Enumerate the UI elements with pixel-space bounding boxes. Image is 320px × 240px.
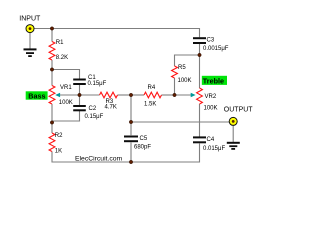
resistor R1: [49, 42, 55, 61]
credit ElecCircuit.com: [75, 155, 123, 162]
value 0.15uF (C1): [88, 81, 107, 87]
svg-text:Bass: Bass: [28, 91, 45, 100]
wire node D to node H: [130, 95, 132, 122]
label R5: [178, 65, 186, 71]
svg-text:VR2: VR2: [205, 94, 217, 100]
svg-text:1K: 1K: [55, 149, 62, 155]
svg-text:R4: R4: [148, 85, 156, 91]
svg-text:INPUT: INPUT: [19, 15, 41, 22]
value 100K (VR2): [204, 106, 218, 112]
label VR2: [205, 94, 217, 100]
svg-text:OUTPUT: OUTPUT: [224, 106, 254, 113]
node C junction (C1/C2/wiper/R3): [78, 93, 81, 96]
resistor R4: [144, 92, 162, 98]
wire node F to R5 top: [175, 55, 200, 66]
value 680pF: [134, 144, 151, 150]
label C1: [88, 75, 96, 81]
ground (output): [227, 143, 240, 149]
svg-text:8.2K: 8.2K: [56, 55, 68, 61]
value 4.7K: [105, 105, 117, 111]
node B junction (R1/C1/VR1): [50, 68, 53, 71]
ground (input): [24, 49, 37, 56]
value 0.015uF (C4): [203, 146, 225, 152]
label VR1: [60, 85, 72, 91]
node E junction (R4/R5/VR2 wiper): [173, 93, 176, 96]
wire VR1 bottom to node A: [51, 104, 53, 123]
label R1: [56, 40, 64, 46]
label C3: [207, 38, 215, 44]
wire R3 to node D: [118, 94, 132, 96]
label C2: [89, 106, 97, 112]
potentiometer VR1 body: [49, 86, 55, 105]
value 1K: [55, 149, 62, 155]
wire input jack to ground: [29, 33, 31, 49]
wire node E to VR2 wiper arrow: [175, 94, 192, 96]
wire C3 bottom to node F: [199, 44, 201, 55]
svg-text:C2: C2: [89, 106, 97, 112]
wire VR2 bottom to node G: [199, 104, 201, 122]
svg-text:R5: R5: [178, 65, 186, 71]
svg-text:C5: C5: [140, 136, 148, 142]
wire node B to C1 top: [52, 70, 80, 79]
potentiometer VR1 wiper arrow: [55, 93, 60, 97]
wire C2 top to node C: [79, 95, 81, 105]
label R3: [106, 99, 114, 105]
value 0.15uF (C2): [85, 114, 104, 120]
wire R1 top stub: [51, 29, 53, 42]
svg-text:C3: C3: [207, 38, 215, 44]
value 1.5K: [144, 102, 156, 108]
label OUTPUT: [224, 106, 254, 113]
svg-text:1.5K: 1.5K: [144, 102, 156, 108]
node Bass label: [26, 91, 48, 100]
label INPUT: [19, 15, 41, 22]
svg-text:4.7K: 4.7K: [105, 105, 117, 111]
capacitor C2: [73, 106, 86, 110]
resistor R2: [49, 133, 55, 152]
wire node A to R2 top: [51, 123, 53, 134]
wire output jack to ground: [232, 126, 234, 142]
node Treble label: [202, 76, 227, 86]
capacitor C3: [193, 38, 206, 43]
input jack J1: [26, 25, 34, 33]
potentiometer VR2 body: [197, 88, 203, 104]
wire R4 to node E: [162, 94, 175, 96]
value 100K (VR1): [59, 100, 73, 106]
svg-text:0.0015μF: 0.0015μF: [203, 46, 229, 52]
wire node D to R4: [131, 94, 144, 96]
svg-text:Treble: Treble: [203, 76, 224, 85]
node H junction (branch/output rail/C5): [129, 120, 132, 123]
wire bottom rail R2 to C4: [52, 144, 200, 163]
wire C2 bottom to node A: [52, 111, 80, 121]
svg-text:R2: R2: [55, 133, 63, 139]
wire R5 bottom to node E: [174, 78, 176, 95]
svg-text:680pF: 680pF: [134, 144, 151, 150]
wire VR1 wiper: [59, 94, 80, 96]
wire R1 bottom to node B: [51, 60, 53, 70]
capacitor C5: [124, 137, 138, 142]
wire node G to C4 top: [199, 122, 201, 137]
wire node B to VR1 top: [51, 70, 53, 86]
capacitor C4: [193, 137, 206, 142]
resistor R3: [100, 92, 118, 98]
value 8.2K: [56, 55, 68, 61]
node C5 bottom junction: [129, 160, 132, 163]
svg-text:0.15μF: 0.15μF: [85, 114, 104, 120]
potentiometer VR2 wiper arrow: [191, 93, 196, 97]
wire top rail input to C3: [34, 29, 200, 38]
svg-text:100K: 100K: [178, 78, 192, 84]
value 100K (R5): [178, 78, 192, 84]
label R2: [55, 133, 63, 139]
resistor R5: [172, 66, 178, 78]
wire C1 bottom to node C: [79, 85, 81, 95]
node D junction (R3/R4/C5 branch): [129, 93, 132, 96]
svg-text:VR1: VR1: [60, 85, 72, 91]
svg-text:0.15μF: 0.15μF: [88, 81, 107, 87]
svg-text:ElecCircuit.com: ElecCircuit.com: [75, 155, 123, 162]
node F junction (C3/R5/VR2 top): [198, 53, 201, 56]
wire node C to R3: [80, 94, 100, 96]
node A junction (VR1/C2/R2): [50, 121, 53, 124]
svg-text:100K: 100K: [204, 106, 218, 112]
output jack J2: [229, 117, 237, 125]
svg-text:100K: 100K: [59, 100, 73, 106]
wire node H to node G output rail: [131, 121, 229, 123]
label C5: [140, 136, 148, 142]
label R4: [148, 85, 156, 91]
wire node H to C5 top: [130, 122, 132, 135]
svg-text:C4: C4: [207, 137, 215, 143]
svg-text:C1: C1: [88, 75, 96, 81]
capacitor C1: [73, 80, 86, 85]
svg-text:R1: R1: [56, 40, 64, 46]
wire node F to VR2 top: [199, 55, 201, 88]
label C4: [207, 137, 215, 143]
value 0.0015uF (C3): [203, 46, 229, 52]
node R1 top junction: [50, 27, 53, 30]
svg-text:0.015μF: 0.015μF: [203, 146, 225, 152]
wire C5 bottom to bottom rail: [130, 142, 132, 162]
